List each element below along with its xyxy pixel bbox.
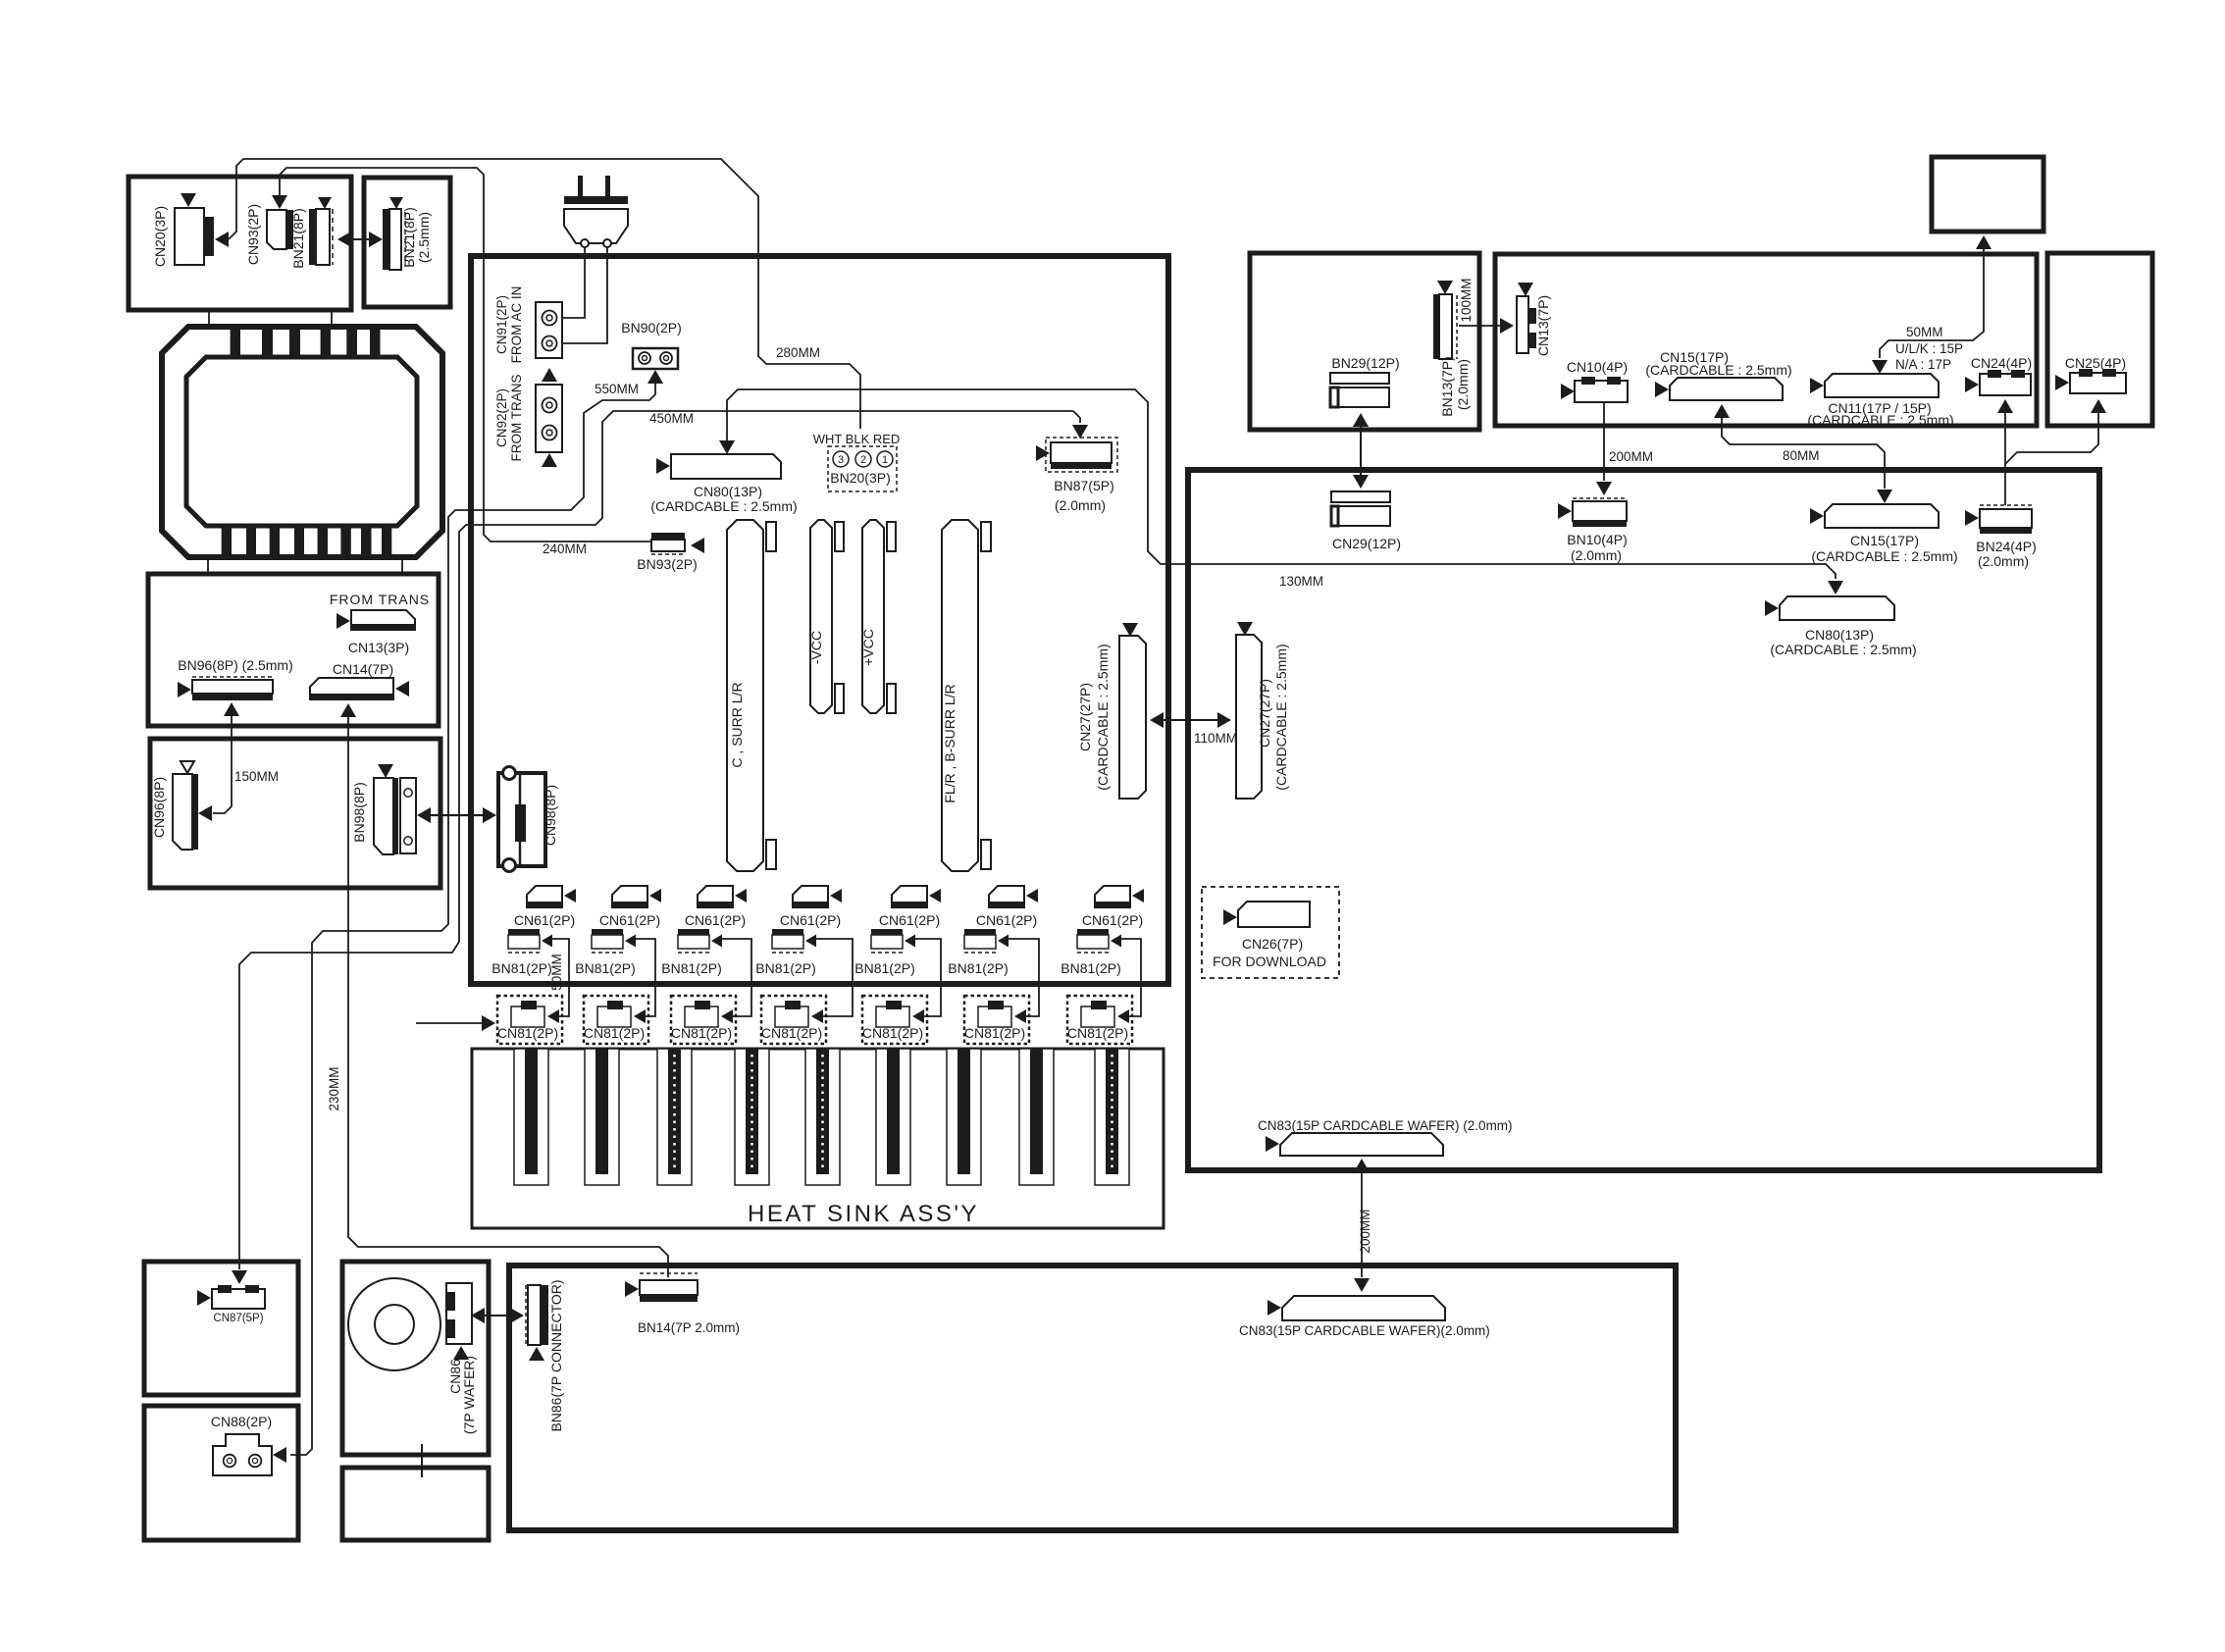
svg-text:(2.0mm): (2.0mm): [1455, 359, 1471, 410]
svg-text:CN61(2P): CN61(2P): [514, 912, 575, 928]
svg-text:CN93(2P): CN93(2P): [245, 204, 261, 265]
svg-text:BN96(8P) (2.5mm): BN96(8P) (2.5mm): [178, 657, 292, 673]
svg-text:CN80(13P): CN80(13P): [1805, 627, 1874, 643]
svg-text:CN20(3P): CN20(3P): [152, 206, 168, 267]
svg-text:CN15(17P): CN15(17P): [1850, 533, 1919, 548]
svg-text:CN81(2P): CN81(2P): [671, 1025, 732, 1041]
svg-text:CN87(5P): CN87(5P): [213, 1313, 263, 1324]
svg-text:HEAT SINK ASS'Y: HEAT SINK ASS'Y: [748, 1201, 979, 1227]
svg-text:(2.0mm): (2.0mm): [1978, 553, 2029, 569]
svg-text:240MM: 240MM: [543, 542, 587, 556]
svg-text:200MM: 200MM: [1358, 1209, 1372, 1253]
svg-text:CN83(15P CARDCABLE WAFER) (2.0: CN83(15P CARDCABLE WAFER) (2.0mm): [1258, 1118, 1513, 1133]
svg-text:CN61(2P): CN61(2P): [879, 912, 940, 928]
svg-text:CN92(2P): CN92(2P): [494, 388, 509, 447]
svg-text:CN61(2P): CN61(2P): [685, 912, 746, 928]
svg-text:(CARDCABLE : 2.5mm): (CARDCABLE : 2.5mm): [1645, 362, 1791, 378]
svg-text:FL/R , B-SURR L/R: FL/R , B-SURR L/R: [942, 684, 957, 802]
svg-text:230MM: 230MM: [327, 1066, 341, 1110]
svg-text:(CARDCABLE : 2.5mm): (CARDCABLE : 2.5mm): [1095, 644, 1111, 790]
svg-text:BN98(8P): BN98(8P): [351, 782, 367, 842]
svg-text:(CARDCABLE : 2.5mm): (CARDCABLE : 2.5mm): [1770, 642, 1916, 657]
svg-text:130MM: 130MM: [1279, 574, 1323, 589]
svg-text:(2.5mm): (2.5mm): [416, 212, 432, 263]
svg-text:CN96(8P): CN96(8P): [151, 777, 167, 838]
svg-text:BN87(5P): BN87(5P): [1054, 478, 1113, 493]
svg-text:1: 1: [882, 454, 888, 466]
svg-text:CN14(7P): CN14(7P): [333, 661, 393, 677]
svg-text:(2.0mm): (2.0mm): [1571, 547, 1622, 563]
svg-text:CN29(12P): CN29(12P): [1332, 536, 1401, 551]
svg-text:CN26(7P): CN26(7P): [1242, 936, 1303, 952]
svg-text:280MM: 280MM: [776, 345, 820, 360]
svg-text:FROM TRANS: FROM TRANS: [330, 592, 430, 607]
svg-text:BN93(2P): BN93(2P): [637, 556, 697, 572]
svg-text:(7P WAFER): (7P WAFER): [461, 1356, 477, 1434]
svg-text:BN81(2P): BN81(2P): [948, 960, 1008, 976]
svg-text:CN61(2P): CN61(2P): [976, 912, 1037, 928]
svg-text:BN24(4P): BN24(4P): [1976, 539, 2036, 554]
svg-text:50MM: 50MM: [549, 954, 564, 991]
svg-text:110MM: 110MM: [1194, 731, 1237, 746]
svg-text:CN91(2P): CN91(2P): [494, 295, 509, 354]
svg-text:C , SURR L/R: C , SURR L/R: [729, 682, 745, 767]
svg-text:(CARDCABLE : 2.5mm): (CARDCABLE : 2.5mm): [650, 498, 797, 514]
svg-text:-VCC: -VCC: [808, 631, 824, 664]
svg-text:CN83(15P CARDCABLE WAFER)(2.0m: CN83(15P CARDCABLE WAFER)(2.0mm): [1239, 1323, 1490, 1338]
svg-text:CN27(27P): CN27(27P): [1077, 683, 1093, 751]
svg-text:CN80(13P): CN80(13P): [694, 484, 762, 499]
svg-text:50MM: 50MM: [1906, 325, 1943, 339]
svg-text:CN27(27P): CN27(27P): [1257, 679, 1272, 748]
svg-text:(2.0mm): (2.0mm): [1055, 497, 1106, 513]
svg-text:BN81(2P): BN81(2P): [661, 960, 721, 976]
svg-text:550MM: 550MM: [595, 382, 639, 396]
svg-text:CN81(2P): CN81(2P): [862, 1025, 923, 1041]
svg-text:100MM: 100MM: [1459, 278, 1474, 322]
svg-text:CN61(2P): CN61(2P): [780, 912, 841, 928]
svg-text:FOR DOWNLOAD: FOR DOWNLOAD: [1213, 954, 1326, 969]
svg-text:80MM: 80MM: [1783, 448, 1820, 463]
svg-text:CN98(8P): CN98(8P): [543, 785, 558, 846]
svg-text:CN25(4P): CN25(4P): [2065, 355, 2126, 371]
svg-text:BN20(3P): BN20(3P): [830, 470, 890, 486]
svg-text:BN10(4P): BN10(4P): [1567, 532, 1627, 547]
svg-text:CN81(2P): CN81(2P): [1067, 1025, 1128, 1041]
svg-text:(CARDCABLE : 2.5mm): (CARDCABLE : 2.5mm): [1807, 412, 1953, 428]
svg-text:CN81(2P): CN81(2P): [497, 1025, 558, 1041]
svg-text:200MM: 200MM: [1609, 449, 1653, 464]
svg-text:CN24(4P): CN24(4P): [1971, 355, 2032, 371]
svg-text:BN90(2P): BN90(2P): [621, 320, 681, 336]
svg-text:WHT BLK RED: WHT BLK RED: [813, 432, 901, 446]
svg-text:BN29(12P): BN29(12P): [1331, 355, 1399, 371]
svg-text:CN13(3P): CN13(3P): [348, 640, 409, 655]
svg-text:BN21(8P): BN21(8P): [290, 208, 306, 268]
svg-text:BN13(7P): BN13(7P): [1439, 356, 1455, 416]
svg-text:CN81(2P): CN81(2P): [964, 1025, 1025, 1041]
svg-text:BN81(2P): BN81(2P): [755, 960, 815, 976]
svg-text:(CARDCABLE : 2.5mm): (CARDCABLE : 2.5mm): [1273, 644, 1289, 790]
svg-text:CN81(2P): CN81(2P): [761, 1025, 822, 1041]
svg-text:+VCC: +VCC: [860, 629, 876, 666]
svg-text:CN81(2P): CN81(2P): [584, 1025, 645, 1041]
svg-text:BN14(7P 2.0mm): BN14(7P 2.0mm): [638, 1320, 740, 1335]
svg-text:CN61(2P): CN61(2P): [1082, 912, 1143, 928]
svg-text:CN10(4P): CN10(4P): [1567, 359, 1628, 375]
svg-text:CN13(7P): CN13(7P): [1535, 295, 1551, 356]
svg-text:450MM: 450MM: [649, 411, 694, 426]
svg-text:BN86(7P CONNECTOR): BN86(7P CONNECTOR): [548, 1279, 564, 1431]
svg-text:BN81(2P): BN81(2P): [1061, 960, 1120, 976]
svg-text:BN81(2P): BN81(2P): [492, 960, 551, 976]
svg-text:N/A : 17P: N/A : 17P: [1895, 357, 1951, 372]
svg-text:2: 2: [860, 454, 866, 466]
svg-text:FROM TRANS: FROM TRANS: [509, 374, 524, 461]
svg-text:BN21(8P): BN21(8P): [401, 207, 417, 267]
svg-text:CN88(2P): CN88(2P): [211, 1414, 272, 1429]
svg-text:(CARDCABLE : 2.5mm): (CARDCABLE : 2.5mm): [1811, 548, 1957, 564]
svg-text:3: 3: [838, 454, 844, 466]
svg-text:U/L/K : 15P: U/L/K : 15P: [1895, 341, 1963, 356]
svg-text:BN81(2P): BN81(2P): [575, 960, 635, 976]
svg-text:150MM: 150MM: [234, 769, 279, 784]
svg-text:CN61(2P): CN61(2P): [599, 912, 660, 928]
svg-text:BN81(2P): BN81(2P): [854, 960, 914, 976]
svg-text:FROM AC IN: FROM AC IN: [509, 286, 524, 364]
